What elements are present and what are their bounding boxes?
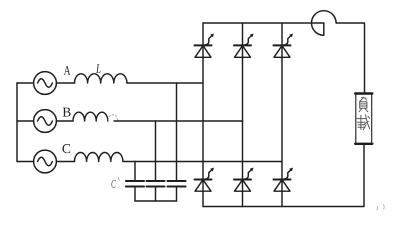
load box <box>355 94 372 144</box>
wire phase A to bridge <box>127 82 203 84</box>
wire phase C stub <box>17 161 34 163</box>
thyristor VT1 <box>195 34 215 58</box>
inductor L (phase B) <box>73 112 117 121</box>
node B label <box>63 108 71 117</box>
thyristor VT3 <box>234 34 254 58</box>
wire bridge leg 1 <box>202 23 204 207</box>
value label L <box>96 64 101 72</box>
capacitor C (phase C leg) <box>126 162 144 202</box>
wire A source to L <box>56 82 74 84</box>
ac source C <box>34 150 57 173</box>
wire B source to L <box>56 120 73 122</box>
wire bridge leg 3 <box>281 23 283 207</box>
wire top dc bus <box>203 22 324 24</box>
load text 载 <box>357 115 370 130</box>
thyristor VT5 <box>274 34 294 58</box>
thyristor VT4 <box>195 168 215 192</box>
ac source A <box>34 72 57 95</box>
capacitor C label <box>111 180 115 188</box>
wire phase C to bridge <box>123 161 282 163</box>
capacitor C (phase A leg) <box>168 83 186 201</box>
ac source B <box>34 110 57 133</box>
capacitor C (phase B leg) <box>147 121 165 201</box>
wire phase A stub <box>17 82 34 84</box>
thyristor VT6 <box>234 168 254 192</box>
wire bottom right <box>203 144 364 207</box>
inductor Ld (smoothing loop) <box>312 11 337 36</box>
inductor L (phase A) <box>75 74 127 83</box>
thyristor VT2 <box>274 168 294 192</box>
node A label <box>64 66 71 75</box>
wire C source to L <box>56 161 74 163</box>
wire neutral bus <box>16 83 18 162</box>
load text 负 <box>359 97 368 112</box>
wire top right <box>336 23 364 94</box>
wire bridge leg 2 <box>242 23 244 207</box>
wire phase B to bridge <box>114 120 243 122</box>
stray scan mark <box>377 205 384 210</box>
inductor L (phase C) <box>75 153 123 162</box>
wire phase B stub <box>17 120 34 122</box>
wire capacitor star point <box>135 200 177 202</box>
node C label <box>62 144 70 153</box>
